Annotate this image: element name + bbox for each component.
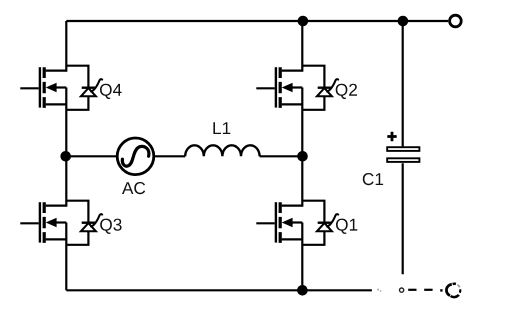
label Q3 bbox=[100, 219, 121, 234]
Q2 body stub with arrow bbox=[288, 86, 302, 88]
Q4 channel segments bbox=[43, 67, 46, 108]
Q2 drain stub bbox=[282, 69, 303, 71]
Q4 source stub bbox=[46, 103, 67, 105]
wire bottom rail faded fragment bbox=[377, 290, 381, 291]
label L1 bbox=[213, 122, 230, 134]
Q4 body diode bbox=[82, 86, 96, 88]
AC source bbox=[117, 138, 154, 175]
label Q2 bbox=[336, 84, 357, 99]
Q4 source wire bbox=[65, 88, 67, 157]
label Q1 bbox=[336, 219, 357, 234]
wire L1 to bridge midpoint bbox=[260, 155, 303, 157]
wire right column upper (to C1) bbox=[402, 21, 404, 146]
label C1 bbox=[363, 173, 383, 185]
output terminal bottom right (broken by watermark) bbox=[446, 284, 460, 297]
Q1 gate bar bbox=[275, 202, 277, 242]
Q3 body-diode loop wire bbox=[66, 201, 88, 245]
label Q4 bbox=[100, 84, 122, 99]
wire C1 to bottom (partially faded) bbox=[402, 163, 404, 274]
output terminal top right bbox=[450, 15, 462, 27]
Q1 body-diode loop wire bbox=[302, 201, 324, 245]
Q1 drain stub bbox=[282, 205, 303, 207]
wire AC to L1 bbox=[154, 155, 185, 157]
Q4 drain stub bbox=[46, 69, 67, 71]
label AC bbox=[122, 182, 145, 194]
Q2 channel segments bbox=[279, 67, 282, 108]
Q2 drain wire bbox=[301, 21, 303, 72]
AC sine wave bbox=[122, 146, 149, 166]
Q1 body stub with arrow bbox=[288, 221, 302, 223]
Q4 drain wire bbox=[65, 21, 67, 72]
Q3 body stub with arrow bbox=[52, 221, 66, 223]
Q3 gate bar bbox=[39, 202, 41, 242]
node top rail / C1 bbox=[398, 16, 409, 27]
Q1 source stub bbox=[282, 238, 303, 240]
Q2 body diode bbox=[318, 86, 332, 88]
wire top rail bbox=[66, 20, 448, 22]
node L1 right / Q2-Q1 midpoint bbox=[297, 151, 308, 162]
wire bottom rail dash 4 bbox=[440, 289, 442, 291]
wire bottom rail dash 2 bbox=[408, 289, 416, 291]
transistor Q1 bbox=[256, 156, 357, 290]
Q3 gate lead bbox=[20, 222, 38, 224]
node top rail / Q2 drain bbox=[298, 16, 309, 27]
Q2 body diode cathode tick bbox=[327, 79, 338, 91]
C1 bottom plate bbox=[387, 158, 419, 162]
transistor Q2 bbox=[256, 21, 357, 156]
wire AC node to source bbox=[65, 155, 117, 157]
C1 top plate bbox=[387, 147, 419, 151]
Q3 channel segments bbox=[43, 202, 46, 243]
Q4 body diode cathode tick bbox=[91, 79, 102, 91]
Q3 drain wire bbox=[65, 156, 67, 206]
Q1 gate lead bbox=[256, 222, 274, 224]
Q1 body diode cathode tick bbox=[327, 214, 338, 226]
transistor Q3 bbox=[20, 156, 121, 290]
wire bottom rail dash 3 bbox=[424, 289, 432, 291]
Q2 source wire bbox=[301, 88, 303, 157]
Q2 gate bar bbox=[275, 67, 277, 107]
Q3 body diode bbox=[82, 221, 96, 223]
Q1 channel segments bbox=[279, 202, 282, 243]
inductor L1 bbox=[185, 145, 259, 156]
wire bottom rail bbox=[66, 289, 372, 291]
Q1 drain wire bbox=[301, 156, 303, 206]
node AC left / Q4-Q3 midpoint bbox=[60, 151, 71, 162]
node bottom rail / Q1 source bbox=[297, 285, 308, 296]
node bottom rail / C1 junction remnant ring bbox=[400, 288, 404, 292]
Q2 gate lead bbox=[256, 87, 274, 89]
Q3 drain stub bbox=[46, 205, 67, 207]
Q2 body-diode loop wire bbox=[302, 66, 324, 110]
Q1 source wire bbox=[301, 223, 303, 291]
Q1 body diode bbox=[318, 221, 332, 223]
Q4 body-diode loop wire bbox=[66, 66, 88, 110]
capacitor C1 bbox=[363, 132, 420, 185]
Q4 gate bar bbox=[39, 67, 41, 107]
Q2 source stub bbox=[282, 103, 303, 105]
Q3 source stub bbox=[46, 238, 67, 240]
C1 plus sign bbox=[387, 132, 396, 141]
transistor Q4 bbox=[20, 21, 121, 156]
Q3 body diode cathode tick bbox=[91, 214, 102, 226]
Q4 gate lead bbox=[20, 87, 38, 89]
Q4 body stub with arrow bbox=[52, 86, 66, 88]
Q3 source wire bbox=[65, 223, 67, 291]
